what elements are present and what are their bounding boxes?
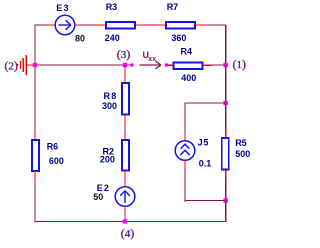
- wire right rail to R5: [225, 103, 226, 138]
- svg-text:500: 500: [235, 149, 250, 159]
- svg-text:J5: J5: [198, 138, 209, 148]
- wire R4 left lead: [168, 65, 174, 66]
- wire right rail bottom: [225, 201, 226, 223]
- svg-text:(3): (3): [117, 47, 131, 61]
- wire R2 to E2: [124, 171, 125, 188]
- node 3 junction: [123, 63, 127, 67]
- voltage source E2: [115, 187, 135, 207]
- svg-text:400: 400: [181, 73, 196, 83]
- svg-text:360: 360: [171, 33, 186, 43]
- svg-text:80: 80: [75, 33, 85, 43]
- wire left rail: [34, 24, 35, 140]
- wire J5 branch vertical: [184, 102, 185, 141]
- junction node 4: [123, 219, 127, 223]
- resistor R2: [122, 140, 129, 171]
- junction below R5: [223, 198, 227, 202]
- svg-text:(1): (1): [233, 57, 247, 71]
- wire R7 to top-right corner: [196, 24, 226, 25]
- svg-text:(2): (2): [4, 58, 18, 72]
- svg-text:R5: R5: [235, 138, 247, 148]
- resistor R5: [222, 138, 229, 170]
- svg-text:50: 50: [93, 192, 103, 202]
- wire right rail top: [225, 24, 226, 65]
- wire R4 to node 1: [203, 64, 226, 66]
- svg-text:240: 240: [105, 33, 120, 43]
- arrow Uxx: [140, 61, 162, 69]
- resistor R4: [174, 62, 203, 69]
- open terminal of R4 lead: [165, 63, 168, 66]
- wire E2 to bottom wire: [124, 206, 125, 222]
- resistor R7: [166, 22, 195, 29]
- svg-text:R3: R3: [106, 2, 118, 12]
- resistor R8: [122, 83, 129, 115]
- wire J5 bottom to corner: [184, 160, 226, 202]
- wire right rail node1 to J5 tap: [225, 65, 226, 104]
- wire E3 to R3: [75, 24, 105, 25]
- wire J5 branch horizontal top: [184, 102, 226, 103]
- svg-text:300: 300: [102, 101, 117, 111]
- svg-text:R6: R6: [47, 141, 59, 151]
- svg-text:0.1: 0.1: [199, 159, 212, 169]
- voltage source E3: [55, 15, 75, 35]
- open terminal left of Uxx: [130, 63, 133, 66]
- junction J5 tap: [223, 101, 227, 105]
- wire node 3 stub to open terminal: [125, 64, 132, 65]
- svg-text:200: 200: [100, 154, 115, 164]
- wire R5 bottom to junction: [225, 170, 226, 202]
- wire top-left corner to E3: [34, 24, 55, 25]
- svg-text:R7: R7: [167, 2, 179, 12]
- wire bottom: [34, 221, 226, 222]
- wire R8 to R2: [124, 115, 125, 141]
- node 1 junction: [223, 63, 227, 67]
- svg-text:(4): (4): [121, 226, 135, 240]
- svg-text:R4: R4: [181, 47, 193, 57]
- svg-text:R8: R8: [104, 91, 117, 101]
- wire node3 down to R8: [124, 65, 125, 83]
- svg-text:600: 600: [49, 156, 64, 166]
- wire R3 to R7: [136, 24, 166, 25]
- resistor R6: [32, 140, 39, 171]
- wire mid from node 2 to node 3: [34, 64, 125, 65]
- ground symbol at node 2: [17, 55, 34, 75]
- current source J5: [175, 141, 195, 161]
- wire R6 to bottom-left corner: [34, 171, 35, 222]
- node 2 junction: [33, 63, 37, 67]
- resistor R3: [106, 22, 135, 29]
- svg-text:xx: xx: [148, 56, 156, 63]
